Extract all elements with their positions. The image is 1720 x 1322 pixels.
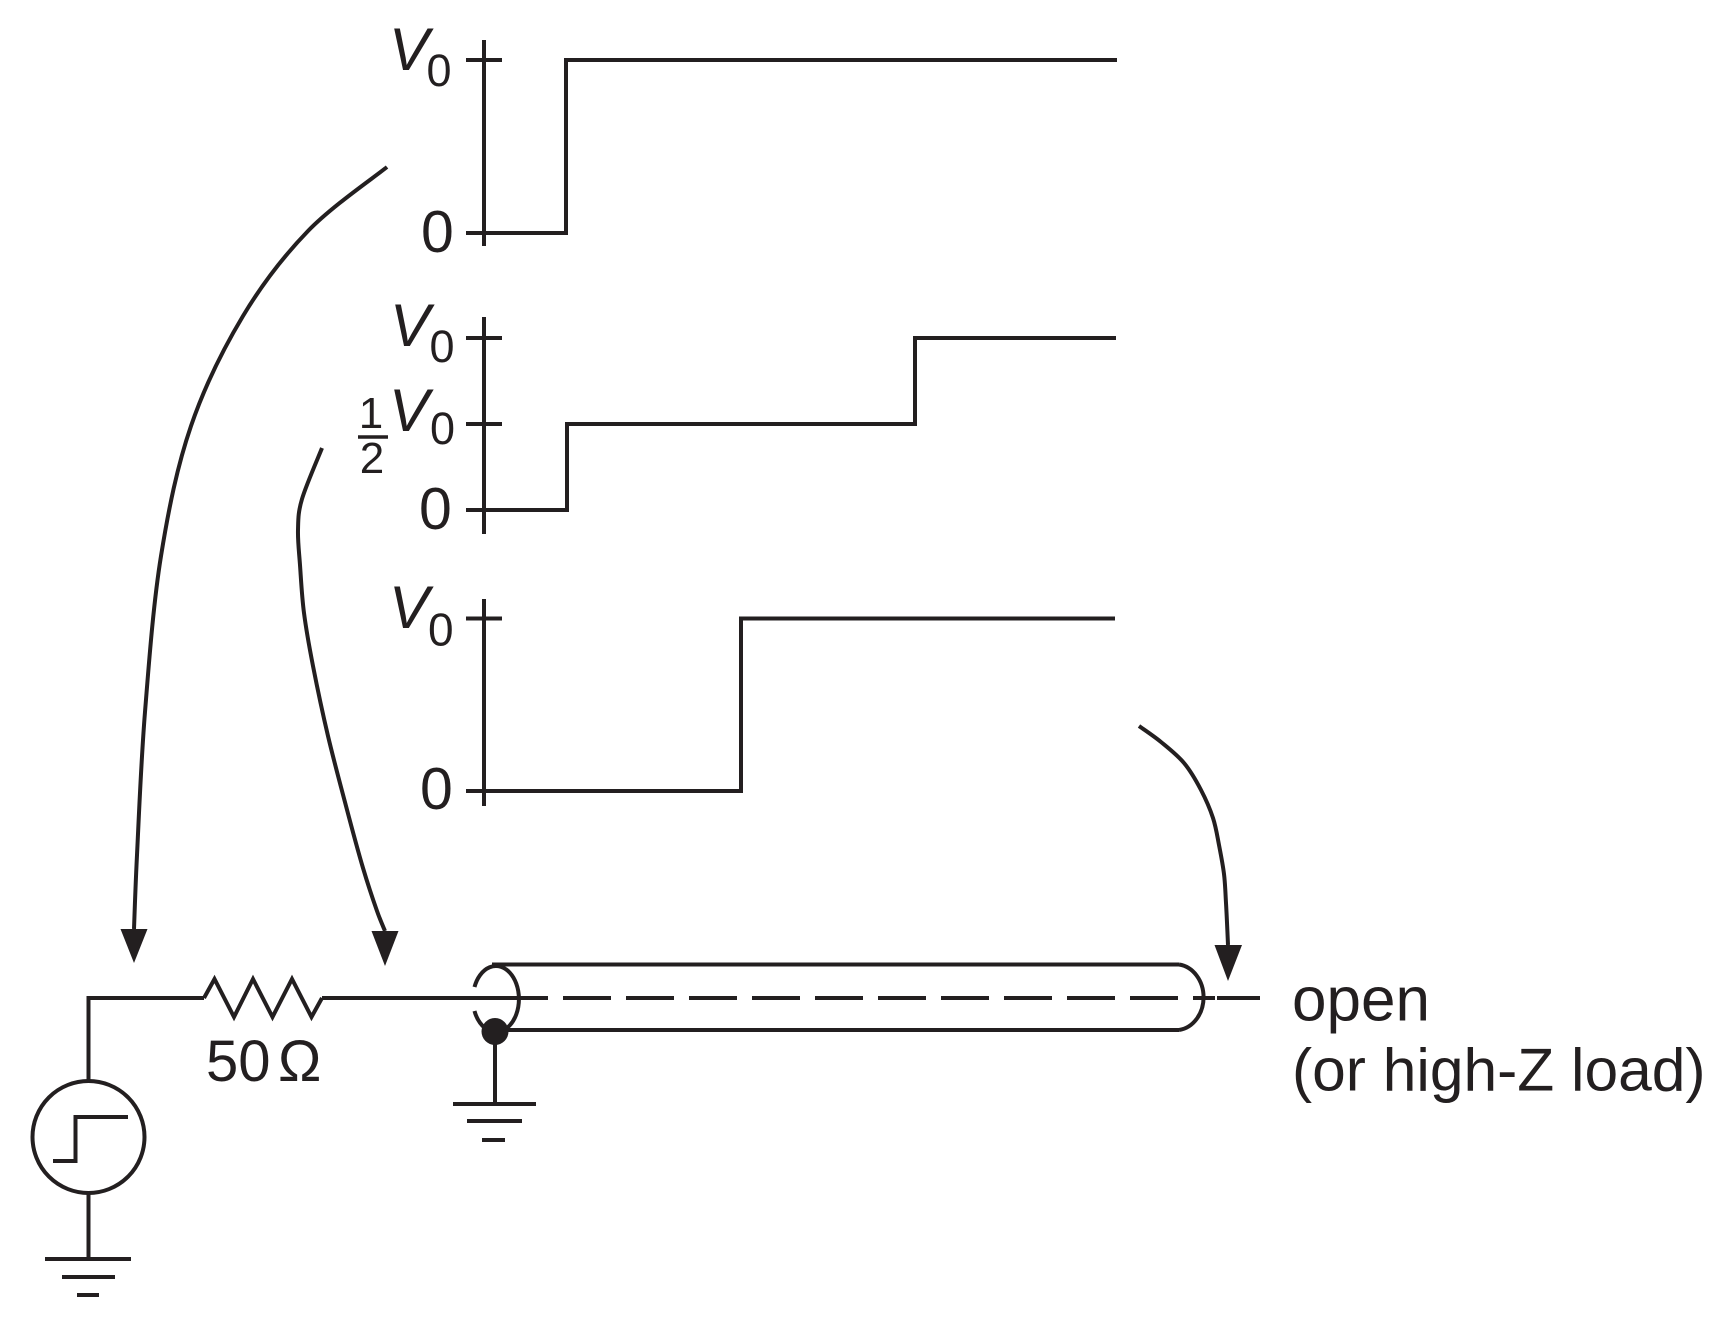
waveform 1 tick V0 [466, 58, 502, 62]
waveform 1 axis [482, 40, 486, 246]
step generator circle [33, 1081, 145, 1193]
waveform 3 tick 0 [466, 789, 502, 793]
svg-text:0: 0 [428, 604, 454, 656]
wire resistor to coax center [322, 996, 548, 1000]
open-end stub wire [1217, 996, 1260, 1000]
svg-text:0: 0 [430, 321, 455, 372]
waveform 2 label 1/2 V0 [358, 377, 455, 483]
waveform 3 axis [482, 599, 486, 806]
step symbol inside generator [53, 1117, 128, 1161]
svg-text:0: 0 [430, 403, 455, 454]
svg-text:Ω: Ω [278, 1029, 321, 1094]
curved arrow to generator side (shaft) [134, 167, 387, 929]
coax tube top line [492, 963, 1179, 967]
svg-text:0: 0 [419, 476, 452, 542]
svg-text:V: V [390, 292, 435, 359]
svg-text:1: 1 [359, 389, 383, 438]
coax left end ellipse [475, 966, 519, 1032]
coax input junction dot [482, 1018, 509, 1045]
waveform 3 step trace [484, 619, 1115, 792]
generator ground symbol [45, 1257, 131, 1261]
generator bottom wire [87, 1193, 91, 1259]
waveform 2 tick 0 [466, 508, 502, 512]
waveform 2 label V0 [390, 292, 455, 372]
svg-text:0: 0 [420, 756, 453, 822]
svg-text:V: V [389, 377, 434, 444]
wire from generator to resistor [89, 998, 205, 1081]
svg-text:open: open [1292, 966, 1430, 1035]
coax tube right end cap [1179, 965, 1204, 1031]
coax center conductor dashed line [563, 996, 1215, 1000]
waveform 2 staircase trace [484, 338, 1116, 510]
coax shield ground wire [493, 1044, 497, 1104]
svg-text:0: 0 [427, 45, 452, 96]
coax ground symbol [453, 1102, 536, 1106]
svg-text:2: 2 [360, 434, 384, 483]
curved arrow to line input (shaft) [298, 448, 385, 931]
waveform 1 step trace [484, 60, 1117, 233]
waveform 3 tick V0 [466, 617, 502, 621]
waveform 2 tick V0 [466, 336, 502, 340]
svg-text:0: 0 [421, 199, 454, 265]
waveform 1 tick 0 [466, 231, 502, 235]
coax tube bottom line [507, 1028, 1179, 1032]
svg-text:50: 50 [206, 1029, 271, 1094]
waveform 3 label V0 [389, 574, 454, 656]
svg-text:(or high-Z load): (or high-Z load) [1292, 1036, 1706, 1104]
arrowhead at line input [372, 931, 399, 966]
resistor 50 ohm zigzag [204, 979, 322, 1017]
arrowhead at generator [121, 929, 148, 963]
arrowhead at open end [1215, 945, 1243, 981]
waveform 2 tick half V0 [466, 422, 502, 426]
curved arrow to open end (shaft) [1139, 726, 1228, 945]
waveform 2 axis [482, 317, 486, 534]
waveform 1 label V0 [389, 16, 452, 96]
